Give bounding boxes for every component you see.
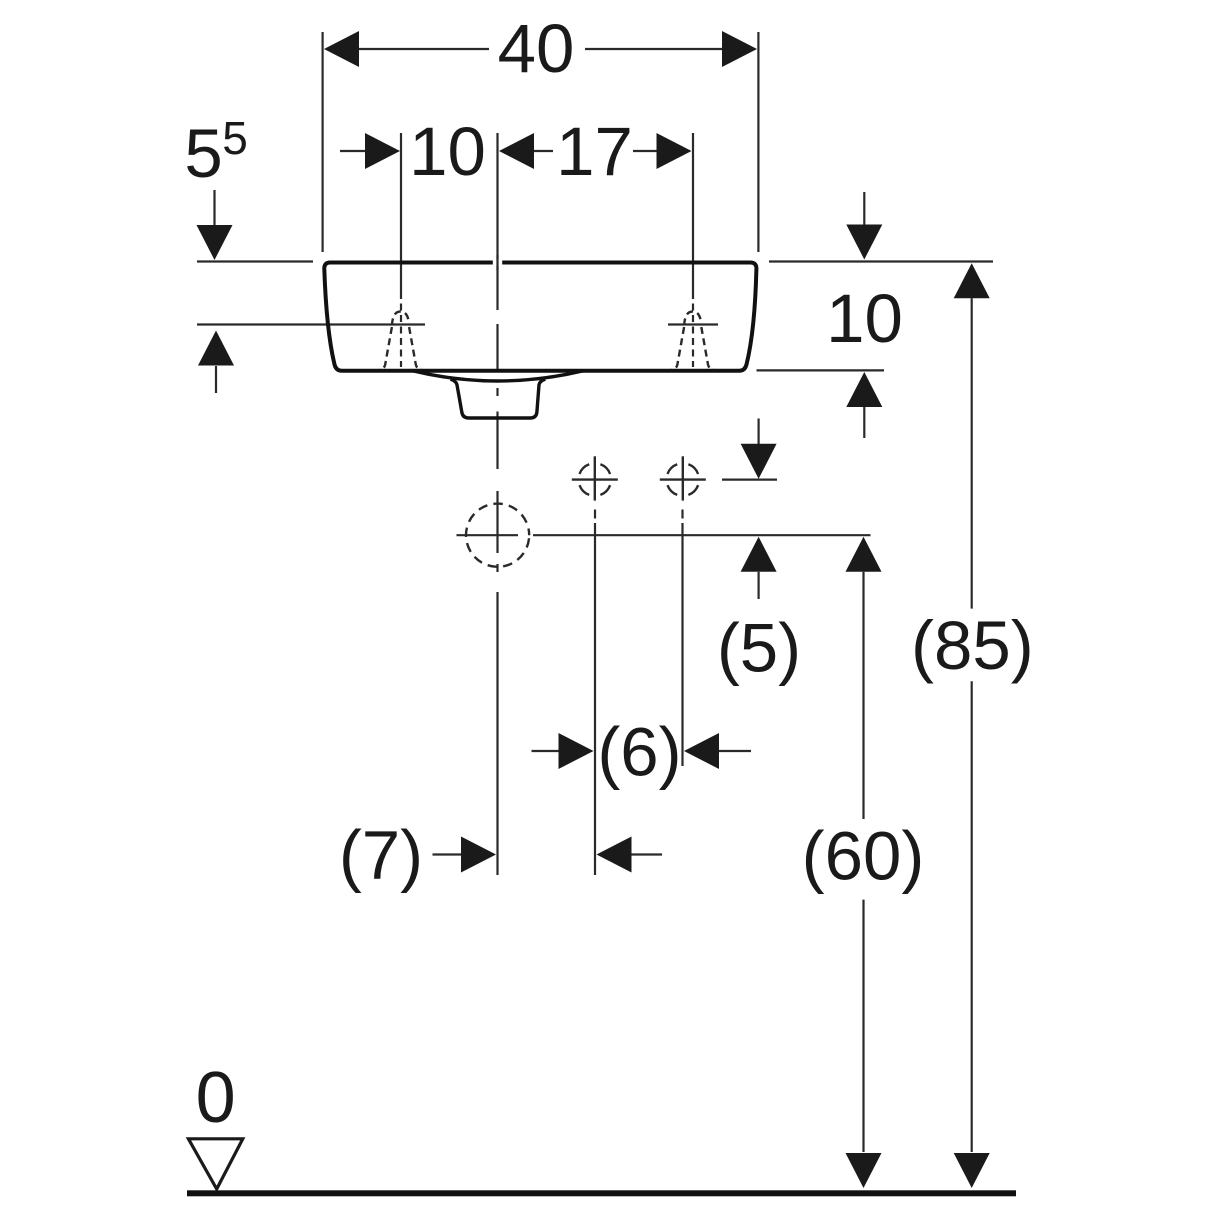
svg-text:(85): (85)	[911, 607, 1034, 684]
svg-text:(60): (60)	[802, 818, 925, 895]
svg-text:0: 0	[196, 1058, 236, 1138]
svg-text:(6): (6)	[597, 714, 681, 791]
svg-text:10: 10	[409, 113, 486, 190]
svg-text:(5): (5)	[717, 610, 801, 687]
svg-text:5: 5	[184, 115, 222, 192]
svg-text:10: 10	[826, 280, 903, 357]
svg-text:40: 40	[498, 10, 575, 87]
svg-text:(7): (7)	[339, 817, 423, 894]
svg-text:17: 17	[556, 113, 633, 190]
svg-text:5: 5	[222, 112, 248, 164]
